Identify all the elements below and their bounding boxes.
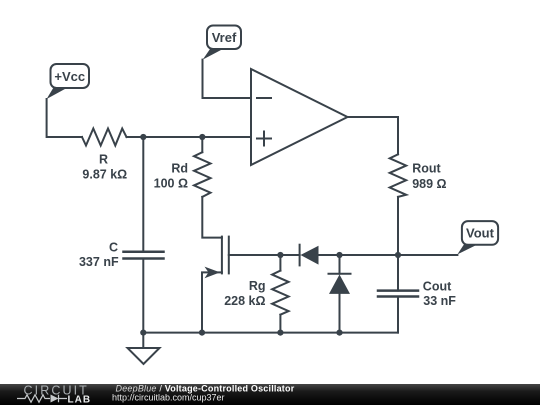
transistor Q1 gate bar: [228, 237, 230, 274]
wire capacitor C branch upper: [142, 137, 144, 252]
wire Rg lower lead: [279, 315, 281, 333]
wire gate lead to node: [229, 254, 281, 256]
svg-text:337 nF: 337 nF: [79, 255, 119, 269]
node junction dot source/rail: [199, 330, 205, 336]
svg-text:100 Ω: 100 Ω: [154, 177, 188, 191]
resistor R3 Rout zigzag: [390, 154, 407, 197]
svg-text:Rd: Rd: [171, 161, 188, 175]
wire diode D2 to bottom rail: [339, 294, 341, 333]
resistor R4 Rg upper lead: [279, 255, 281, 271]
node junction dot ground: [140, 330, 146, 336]
diode D2 triangle: [329, 275, 350, 294]
svg-text:+Vcc: +Vcc: [54, 69, 85, 84]
resistor R4 Rg zigzag: [272, 271, 289, 315]
wire node to Vout: [340, 254, 458, 256]
wire main rail to op-amp plus input: [127, 136, 252, 138]
resistor R1 R zigzag: [82, 129, 127, 146]
svg-text:LAB: LAB: [68, 395, 92, 405]
wire capacitor C branch lower: [142, 259, 144, 333]
flag Vref: [203, 26, 241, 60]
capacitor C1 C plates: [124, 252, 164, 259]
svg-text:Cout: Cout: [423, 279, 452, 293]
wire Rd upper lead: [201, 137, 203, 152]
node junction dot D2/rail: [336, 330, 342, 336]
wire diode D1 anode to node: [319, 254, 340, 256]
svg-text:Rg: Rg: [249, 279, 266, 293]
svg-text:9.87 kΩ: 9.87 kΩ: [82, 168, 127, 182]
flag Vout: [457, 221, 498, 254]
logo wire squiggle: [17, 395, 67, 403]
wire op-amp output to Rout: [348, 117, 399, 154]
capacitor C2 Cout plates: [378, 291, 418, 297]
diode D1 triangle: [301, 246, 319, 265]
wire bottom rail: [143, 332, 398, 334]
node junction dot gate/Rg: [277, 252, 283, 258]
wire Cout upper lead: [397, 255, 399, 291]
diode D1 cathode bar: [299, 245, 301, 266]
wire Vref to op-amp minus input: [203, 60, 252, 98]
svg-text:Rout: Rout: [412, 162, 441, 176]
svg-text:http://circuitlab.com/cup37er: http://circuitlab.com/cup37er: [112, 392, 225, 402]
node junction dot R/C: [140, 134, 146, 140]
ground stub: [142, 333, 144, 348]
svg-text:Vref: Vref: [212, 30, 237, 45]
wire Rout lower lead: [397, 197, 399, 255]
node junction dot Rg/rail: [277, 330, 283, 336]
wire transistor source lead: [202, 272, 222, 332]
svg-text:Vout: Vout: [466, 226, 495, 241]
wire node to diode D2: [339, 255, 341, 274]
wire +Vcc vertical to main rail: [47, 99, 82, 137]
transistor Q1 channel bar: [221, 237, 223, 274]
op-amp U1 triangle: [251, 69, 348, 165]
wire node to diode D1: [280, 254, 299, 256]
node junction dot Rout/Cout/Vout: [395, 252, 401, 258]
node junction dot D1/D2: [336, 252, 342, 258]
wire Rd to transistor drain: [202, 197, 222, 238]
svg-text:989 Ω: 989 Ω: [412, 177, 446, 191]
resistor R2 Rd zigzag: [194, 152, 211, 197]
svg-text:C: C: [109, 241, 118, 255]
svg-text:R: R: [99, 152, 108, 166]
wire Cout lower lead: [397, 297, 399, 333]
svg-text:228 kΩ: 228 kΩ: [224, 294, 265, 308]
diode D2 cathode bar: [329, 273, 351, 275]
ground triangle: [128, 348, 160, 364]
transistor Q1 source arrow: [205, 267, 221, 279]
node junction dot R/Rd: [199, 134, 205, 140]
op-amp U1 plus sign: [257, 132, 271, 146]
op-amp U1 minus sign: [257, 97, 271, 99]
svg-text:33 nF: 33 nF: [423, 294, 456, 308]
logo diode triangle: [51, 395, 59, 403]
flag +Vcc: [47, 64, 89, 99]
